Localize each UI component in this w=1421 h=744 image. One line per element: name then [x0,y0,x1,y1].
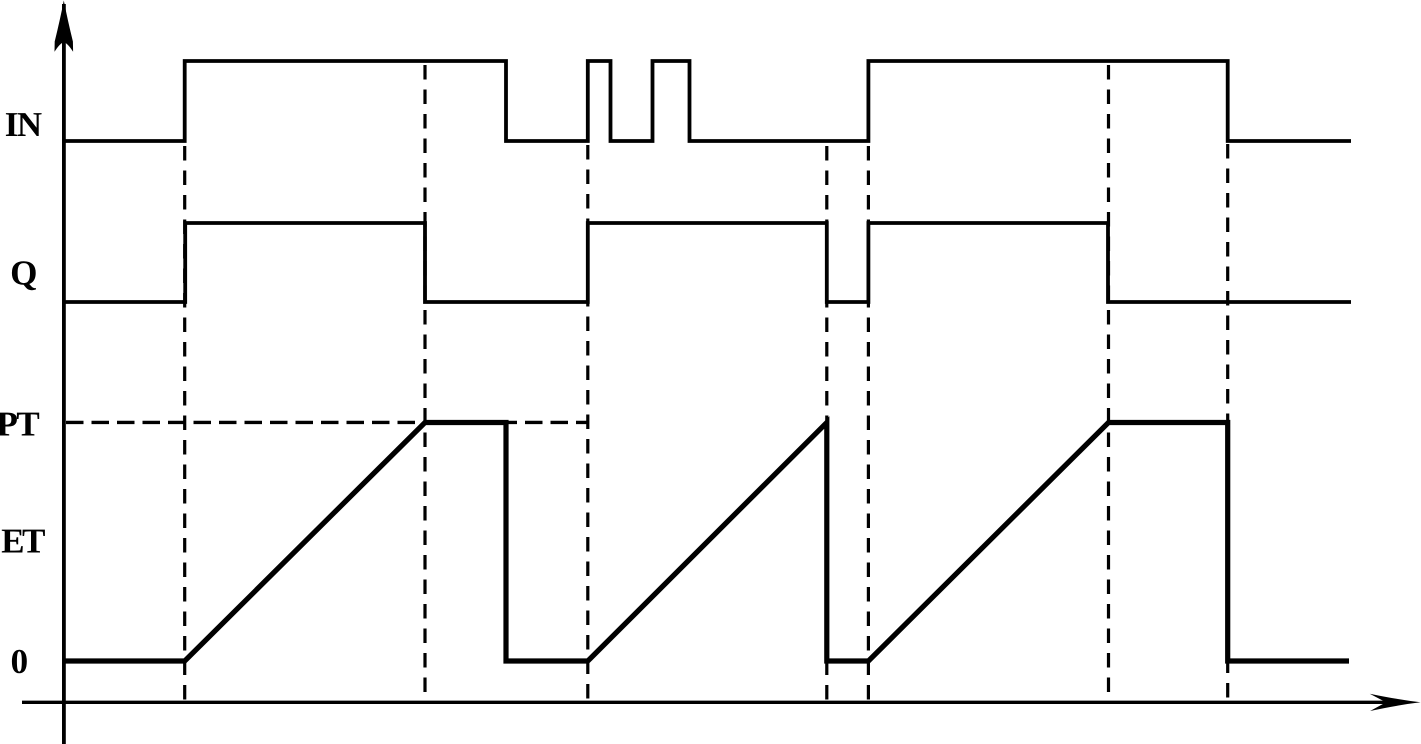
vertical axis [62,4,66,744]
dashed vertical at t1 (first IN rise) [183,146,186,701]
horizontal axis arrowhead [1370,694,1421,711]
dashed vertical at t8 (Q fall 2 / ET2 peak) [825,146,828,701]
label PT [0,413,39,436]
dashed vertical at t4 (IN pulse1 rise / Q rise) [586,145,589,701]
label IN [6,113,42,136]
Q waveform [64,223,1351,302]
label 0 [12,650,27,674]
dashed vertical at t11 (IN fall 3 / ET3 drop) [1226,144,1229,701]
label Q [12,261,36,290]
horizontal axis [22,701,1404,704]
dashed vertical at t2 (Q fall / ET reaches PT) [423,65,426,701]
dashed vertical at t10 (Q fall 3 / ET3 reaches PT) [1107,65,1110,701]
IN waveform [64,61,1351,141]
vertical axis arrowhead [55,1,74,52]
dashed vertical at t9 (IN rise 3 / Q rise 3) [867,146,870,701]
dashed PT level line [66,421,587,424]
ET waveform (bold ramps) [64,423,1349,662]
label ET [2,530,45,553]
